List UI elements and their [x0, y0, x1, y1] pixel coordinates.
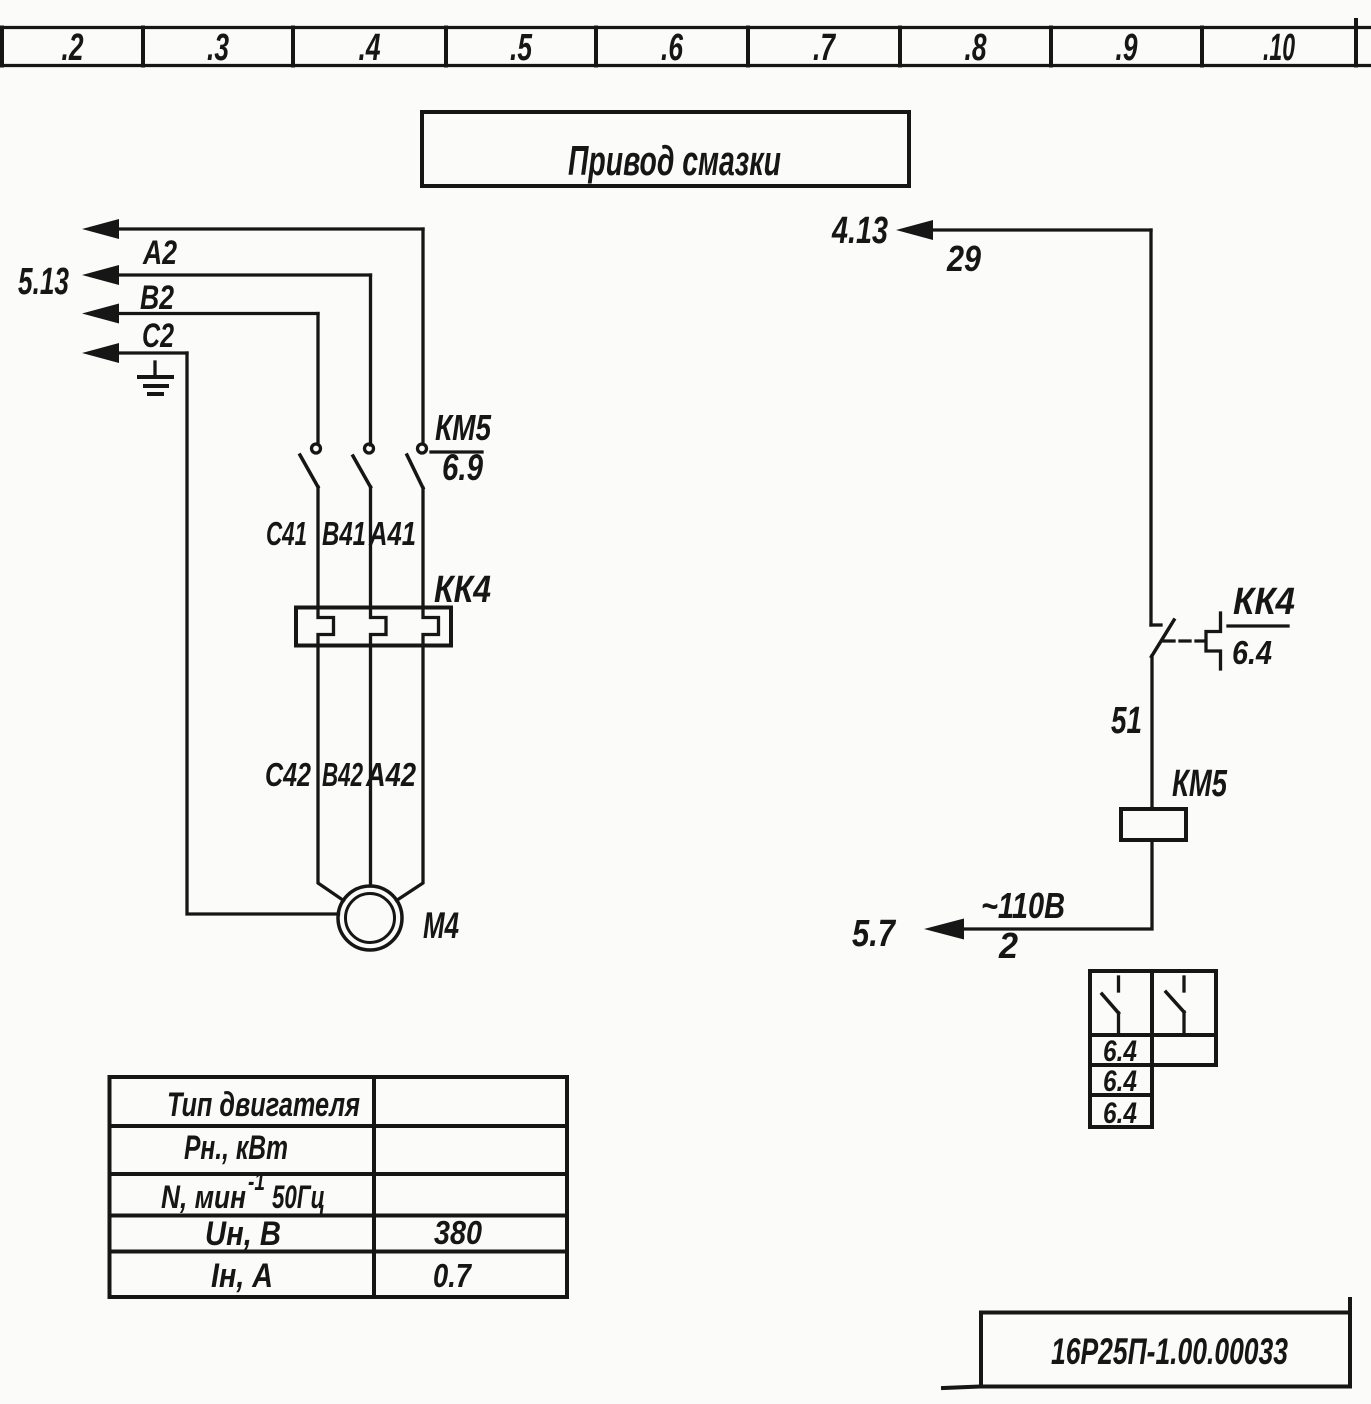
wire B2 vertical: [369, 275, 372, 445]
ground symbol: [139, 362, 172, 394]
svg-text:50Гц: 50Гц: [272, 1179, 325, 1215]
ruler scale band: [0, 20, 1371, 66]
svg-text:2: 2: [998, 925, 1018, 966]
svg-text:0.7: 0.7: [433, 1257, 472, 1294]
coil KM5: [1121, 809, 1186, 840]
svg-text:КМ5: КМ5: [1172, 763, 1228, 805]
arrow to 5.13 line A2: [82, 219, 423, 239]
svg-text:Тип двигателя: Тип двигателя: [167, 1086, 360, 1124]
arrow to 4.13 wire 29: [896, 220, 1151, 240]
svg-text:КК4: КК4: [434, 569, 491, 611]
svg-text:А2: А2: [142, 234, 177, 272]
motor M4: [338, 886, 402, 950]
svg-text:.8: .8: [965, 27, 988, 69]
wire B42: [369, 646, 372, 887]
svg-text:В2: В2: [140, 279, 174, 317]
contactor KM5 main contact pole A: [407, 444, 427, 608]
thermal contact KK4: [1151, 613, 1221, 669]
ruler zone numbers: [62, 27, 1296, 69]
svg-text:.4: .4: [359, 27, 381, 69]
arrow to 5.13 ground wire: [82, 343, 187, 363]
svg-text:С41: С41: [266, 515, 307, 552]
KK4 heater element B: [371, 608, 387, 646]
title box: [422, 112, 909, 186]
wire 29 vertical: [1149, 230, 1152, 625]
KK4 heater element A: [423, 608, 439, 646]
drawing number box: [943, 1299, 1350, 1388]
motor data table: [110, 1077, 568, 1297]
wire A2 vertical: [421, 229, 424, 444]
svg-text:.9: .9: [1116, 27, 1138, 69]
svg-text:.10: .10: [1263, 27, 1295, 69]
svg-text:.2: .2: [62, 27, 84, 69]
KK4 heater element C: [318, 608, 334, 646]
aux contact symbol 1: [1102, 977, 1119, 1035]
svg-text:5.13: 5.13: [18, 261, 69, 303]
svg-text:.3: .3: [207, 27, 229, 69]
svg-text:Iн, А: Iн, А: [211, 1257, 273, 1295]
wire 2: [962, 840, 1152, 929]
svg-text:380: 380: [434, 1214, 483, 1251]
svg-text:КК4: КК4: [1233, 581, 1295, 623]
svg-text:А41: А41: [368, 515, 416, 552]
svg-text:N, мин: N, мин: [161, 1179, 246, 1215]
svg-text:А42: А42: [365, 756, 416, 793]
aux contact symbol 2: [1166, 977, 1184, 1033]
thermal relay KK4 heater box: [296, 608, 451, 646]
svg-text:С2: С2: [142, 317, 174, 355]
wire A42: [397, 646, 424, 901]
svg-text:Uн, В: Uн, В: [205, 1215, 281, 1253]
svg-text:.7: .7: [813, 27, 836, 69]
wire C42: [318, 646, 344, 901]
KM5 auxiliary contact table: [1090, 971, 1216, 1127]
svg-text:6.4: 6.4: [1232, 634, 1272, 671]
svg-text:51: 51: [1111, 700, 1142, 742]
contactor KM5 main contact pole C: [300, 444, 321, 608]
svg-text:КМ5: КМ5: [435, 407, 492, 448]
svg-text:6.4: 6.4: [1103, 1097, 1137, 1130]
svg-text:С42: С42: [265, 756, 311, 793]
svg-text:М4: М4: [423, 905, 459, 946]
svg-text:-1: -1: [248, 1166, 265, 1196]
svg-text:16Р25П-1.00.00033: 16Р25П-1.00.00033: [1051, 1331, 1288, 1372]
svg-text:5.7: 5.7: [852, 913, 897, 955]
svg-text:6.4: 6.4: [1103, 1065, 1137, 1098]
svg-text:4.13: 4.13: [831, 210, 888, 252]
ground wire to motor frame: [187, 353, 339, 914]
svg-text:В42: В42: [322, 756, 363, 793]
label KM5 6.9: [435, 407, 492, 488]
svg-text:Рн., кВт: Рн., кВт: [184, 1129, 288, 1167]
arrow to 5.7: [924, 919, 964, 940]
aux contact refs 6.4: [1103, 1035, 1137, 1130]
arrow to 5.13 line B2: [82, 265, 371, 285]
wire 51: [1150, 656, 1153, 809]
svg-text:6.4: 6.4: [1103, 1035, 1137, 1068]
svg-text:.5: .5: [510, 27, 533, 69]
svg-text:~110В: ~110В: [981, 885, 1065, 926]
contactor KM5 main contact pole B: [353, 444, 374, 608]
svg-text:В41: В41: [322, 515, 366, 552]
wire C2 vertical: [316, 314, 319, 445]
arrow to 5.13 line C2: [82, 304, 318, 324]
svg-text:29: 29: [946, 238, 981, 279]
svg-text:.6: .6: [661, 27, 684, 69]
label KK4 6.4: [1232, 581, 1295, 671]
svg-text:Привод смазки: Привод смазки: [568, 137, 781, 184]
